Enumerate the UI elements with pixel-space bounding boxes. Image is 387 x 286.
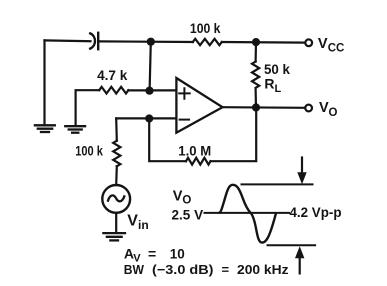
label VCC <box>318 36 344 55</box>
svg-text:in: in <box>138 218 149 232</box>
label 100 k (left) <box>75 144 103 159</box>
wire: bottom reference line <box>268 244 316 246</box>
label 1.0 M <box>178 144 211 159</box>
svg-text:V: V <box>318 36 328 52</box>
svg-text:R: R <box>264 76 274 92</box>
svg-text:CC: CC <box>328 43 345 55</box>
resistor R2 4.7 k <box>99 87 128 94</box>
svg-text:V: V <box>127 213 138 230</box>
svg-text:O: O <box>182 195 191 207</box>
svg-text:200 kHz: 200 kHz <box>237 262 289 277</box>
node E (top rail / RL junction) <box>252 38 260 46</box>
resistor R1 100 k (top rail) <box>193 39 222 45</box>
wire: top rail, 100k to VCC terminal <box>222 41 305 44</box>
label VO <box>319 100 338 119</box>
svg-text:1.0 M: 1.0 M <box>178 144 211 159</box>
wire: top rail, capacitor to 100k resistor <box>99 40 193 43</box>
svg-text:2.5 V: 2.5 V <box>172 206 204 222</box>
wire: node A down to + input wire <box>150 42 151 91</box>
svg-text:L: L <box>275 83 282 95</box>
label Vin <box>127 213 148 233</box>
wire: top rail, corner to capacitor <box>45 39 91 42</box>
node C (minus wire junction) <box>145 114 153 122</box>
label 4.2 Vp-p <box>290 204 342 220</box>
wire: minus input wire <box>116 117 176 119</box>
svg-text:=: = <box>148 246 156 262</box>
label 2.5 V <box>172 206 204 222</box>
ground (under Vin) <box>103 233 125 240</box>
resistor RL 50 k (vertical) <box>252 62 259 88</box>
svg-text:V: V <box>173 189 183 205</box>
wire: top reference line <box>242 183 313 185</box>
wire: feedback from node C down and right <box>149 119 186 162</box>
node A (top rail junction) <box>147 38 155 46</box>
svg-text:=: = <box>222 262 230 277</box>
terminal VCC (open circle) <box>305 39 312 46</box>
wire: minus wire corner down to 100k <box>115 118 118 140</box>
op-amp U1 <box>176 78 222 133</box>
wire: 4.7k to op-amp + input <box>128 89 176 91</box>
wire: op-amp output to VO terminal <box>223 106 306 109</box>
wire: waveform center line <box>205 212 290 214</box>
svg-text:V: V <box>319 100 329 116</box>
wire: left vertical drop to ground <box>43 40 45 124</box>
capacitor C1 <box>90 33 98 49</box>
svg-text:10: 10 <box>170 247 185 262</box>
ground (under 4.7k lead) <box>65 126 85 133</box>
wire: source to ground <box>115 213 117 233</box>
node B (+ input wire junction) <box>145 87 153 95</box>
label VO (waveform) <box>173 189 192 207</box>
svg-text:100 k: 100 k <box>75 144 103 159</box>
label 50 k <box>264 62 290 77</box>
wire: 4.7k left lead with corner down <box>76 90 100 126</box>
wire: 100k down to source <box>115 166 118 185</box>
waveform sine cycle <box>220 185 276 243</box>
source Vin (sine source) <box>102 185 130 213</box>
svg-text:100 k: 100 k <box>190 21 221 36</box>
label BW (-3.0 dB) = 200 kHz <box>124 262 289 277</box>
node D (output junction) <box>252 103 260 111</box>
wire: RL bottom lead <box>255 89 258 107</box>
terminal VO (open circle) <box>305 105 312 112</box>
label Av = 10 <box>124 246 185 265</box>
arrow up (to bottom reference) <box>295 246 304 273</box>
resistor R4 1.0 M <box>186 158 211 165</box>
svg-text:BW: BW <box>124 262 145 277</box>
label 100 k <box>190 21 221 36</box>
label 4.7 k <box>97 68 128 83</box>
wire: feedback right segment up to output node <box>211 108 257 162</box>
svg-text:4.2 Vp-p: 4.2 Vp-p <box>290 204 342 220</box>
resistor R3 100 k (vertical) <box>113 141 120 167</box>
svg-text:(−3.0 dB): (−3.0 dB) <box>152 262 214 277</box>
svg-text:O: O <box>329 107 338 119</box>
svg-text:4.7 k: 4.7 k <box>97 68 128 83</box>
wire: RL top lead <box>255 42 258 61</box>
arrow down (to top reference) <box>297 158 306 185</box>
ground (top left) <box>35 125 55 132</box>
label RL <box>264 76 281 96</box>
